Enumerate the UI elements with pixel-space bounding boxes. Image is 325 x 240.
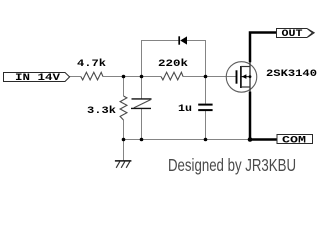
ground slash 2 bbox=[121, 162, 125, 168]
port OUT chevron bbox=[308, 29, 314, 37]
wire loop left vertical bbox=[141, 41, 143, 77]
thick drain wire to OUT bbox=[250, 33, 277, 63]
wire main 4.7k to 220k bbox=[103, 76, 161, 78]
diode D1 cathode bar bbox=[178, 36, 180, 44]
MOSFET Q1 body arrow bbox=[242, 74, 247, 79]
ground slash 3 bbox=[126, 162, 130, 168]
MOSFET Q1 body-source dot bbox=[249, 75, 252, 78]
diode D1 triangle bbox=[180, 36, 187, 44]
port flag IN bbox=[4, 73, 70, 82]
capacitor C1 bottom plate bbox=[198, 109, 212, 111]
wire R2 bottom bbox=[123, 120, 125, 140]
ground slash 1 bbox=[116, 162, 120, 168]
wire ground drop bbox=[123, 140, 125, 162]
svg-text:4.7k: 4.7k bbox=[77, 58, 106, 70]
thick wire to COM bbox=[250, 138, 278, 141]
wire R2 top bbox=[123, 77, 125, 97]
port box COM bbox=[277, 135, 313, 144]
junction dot A main-R2 bbox=[122, 75, 126, 79]
resistor R1 4.7k zigzag bbox=[81, 72, 103, 80]
junction dot F rail-cap bbox=[204, 138, 208, 142]
MOSFET Q1 source stub bbox=[241, 86, 250, 88]
MOSFET Q1 channel bar bbox=[240, 66, 242, 88]
svg-text:220k: 220k bbox=[158, 58, 188, 70]
wire cap bottom bbox=[205, 111, 207, 140]
zener ZD1 diagonal bbox=[134, 99, 151, 108]
wire cap top bbox=[205, 77, 207, 104]
port flag OUT bbox=[277, 29, 313, 38]
wire main 220k to gate bbox=[183, 76, 237, 78]
wire loop right vertical bbox=[205, 41, 207, 77]
MOSFET Q1 body stub bbox=[242, 76, 251, 78]
wire bottom rail bbox=[123, 139, 250, 141]
svg-text:OUT: OUT bbox=[282, 29, 303, 40]
junction dot D rail-R2-gnd bbox=[122, 138, 126, 142]
MOSFET Q1 gate bar bbox=[236, 70, 238, 83]
junction big dot source-rail bbox=[248, 137, 253, 142]
svg-text:2SK3140: 2SK3140 bbox=[266, 69, 317, 80]
wire loop top left bbox=[141, 40, 178, 42]
capacitor C1 top plate bbox=[198, 104, 212, 106]
MOSFET Q1 drain stub bbox=[241, 66, 250, 68]
MOSFET Q1 internal vertical bbox=[249, 62, 251, 92]
zener ZD1 top bar bbox=[132, 98, 152, 100]
MOSFET Q1 circle bbox=[226, 62, 257, 93]
svg-text:Designed by JR3KBU: Designed by JR3KBU bbox=[168, 155, 296, 175]
wire zener bottom bbox=[141, 108, 143, 139]
svg-text:IN 14V: IN 14V bbox=[15, 73, 60, 84]
resistor R3 220k zigzag bbox=[161, 72, 183, 80]
wire loop top right bbox=[187, 40, 206, 42]
resistor R2 3.3k vertical zigzag bbox=[120, 96, 127, 120]
junction dot E rail-zener bbox=[140, 138, 144, 142]
thick source wire down bbox=[249, 92, 252, 140]
svg-text:3.3k: 3.3k bbox=[87, 105, 116, 117]
svg-text:COM: COM bbox=[282, 135, 306, 146]
zener ZD1 bottom bar bbox=[131, 107, 151, 109]
wire main from IN tip to 4.7k bbox=[70, 76, 81, 78]
ground bar bbox=[115, 160, 131, 162]
junction dot B main-zener-loop bbox=[140, 75, 144, 79]
junction dot C main-cap-loop bbox=[204, 75, 208, 79]
svg-text:1u: 1u bbox=[178, 104, 192, 115]
wire zener top bbox=[141, 77, 143, 99]
